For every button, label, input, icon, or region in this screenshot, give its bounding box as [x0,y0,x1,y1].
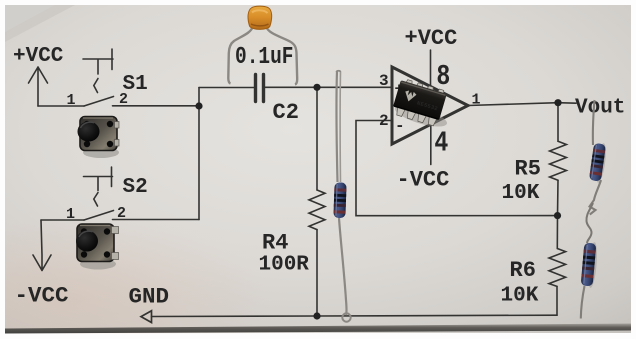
svg-text:10K: 10K [502,182,540,205]
svg-text:R6: R6 [510,258,536,283]
wire +VCC to S1 pin 1 [38,105,84,107]
svg-text:3: 3 [379,72,389,90]
svg-text:4: 4 [434,126,448,159]
wire op-amp pin 2 feedback loop to R5/R6 node [356,121,558,216]
wire left bus vertical (S1/S2 common) [198,88,200,220]
leads [228,27,252,84]
svg-text:R4: R4 [262,231,288,256]
svg-text:2: 2 [379,112,389,130]
switch S1 [83,49,114,106]
svg-text:GND: GND [129,284,170,310]
junction R4 bottom / ground wire node [313,312,320,319]
resistor R4 [309,87,325,315]
switch S2 [84,167,114,220]
wire bus to C2 left plate [199,87,254,89]
wire C2 right plate to R4 node [265,86,317,88]
wire -VCC to S2 pin 1 [41,219,84,221]
paper bottom edge shadow [5,324,631,334]
axial resistor photo (R6) [581,203,599,319]
ground arrow (GND) [141,311,152,323]
tactile pushbutton photo (S1) [78,117,120,159]
op-amp U1 [392,67,468,144]
svg-text:100R: 100R [259,254,310,277]
power symbol -VCC arrow [33,220,51,271]
svg-text:2: 2 [117,205,126,222]
wire R4 node to op-amp pin 3 [317,86,392,88]
wire S2 pin 2 to bus [113,219,200,221]
svg-text:S2: S2 [123,176,148,199]
svg-text:0.1uF: 0.1uF [235,43,293,71]
axial resistor photo (R5) [589,100,608,215]
svg-text:1: 1 [67,92,76,109]
junction R5/R6 feedback node [554,212,561,219]
svg-text:Vout: Vout [575,97,625,120]
svg-text:1: 1 [66,206,75,223]
junction S1/S2 bus node [195,102,202,109]
wire op-amp output pin 1 to Vout node [468,103,576,106]
DIP-8 IC package photo over op-amp U1 [393,101,449,131]
junction output / R5 top node [554,99,561,106]
svg-text:8: 8 [436,60,450,93]
axial resistor photo over R4 [333,71,350,322]
tactile pushbutton photo (S2) [76,224,119,270]
svg-text:1: 1 [472,92,481,109]
svg-text:-VCC: -VCC [15,283,69,309]
svg-text:-VCC: -VCC [397,168,450,193]
resistor R6 [549,216,566,316]
capacitor C2 plates [256,75,264,102]
svg-text:+VCC: +VCC [13,45,64,68]
wire op-amp pin 8 to +VCC [430,50,432,87]
svg-text:2: 2 [119,91,128,108]
svg-text:+VCC: +VCC [405,26,458,51]
svg-text:C2: C2 [273,100,299,125]
ceramic capacitor photo (C2, 0.1uF) [228,6,297,84]
wire op-amp pin 4 to -VCC [430,125,432,165]
power symbol +VCC arrow [29,67,48,106]
wire S1 pin 2 to bus [113,105,200,107]
svg-text:-: - [395,117,405,135]
svg-text:10K: 10K [501,285,539,308]
junction C2 right / R4 top node [313,84,320,91]
resistor R5 [550,103,567,216]
body [248,6,272,29]
wire ground rail bottom [152,315,558,316]
svg-text:R5: R5 [515,157,541,182]
